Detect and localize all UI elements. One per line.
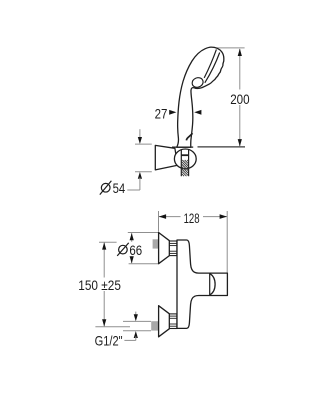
dimension 128 extension line right	[226, 211, 228, 273]
bracket ball circle	[174, 149, 196, 169]
top union nut	[169, 241, 177, 256]
dimension 200 arrow down	[238, 139, 242, 146]
dimension 200 extension line bottom	[198, 146, 246, 148]
dimension G12 extension line top	[123, 320, 151, 322]
label G12 leader	[124, 339, 135, 341]
dimension 150 arrow up	[102, 242, 106, 249]
bracket clip left line	[180, 150, 182, 177]
svg-text:27: 27	[155, 105, 168, 121]
svg-text:54: 54	[113, 180, 126, 196]
dimension D66 extension line top	[128, 232, 158, 234]
shower head rim line 1	[204, 49, 216, 78]
bracket shank hatching	[182, 160, 189, 176]
svg-text:200: 200	[230, 91, 250, 107]
dimension 150 extension line top	[99, 241, 117, 243]
dimension 128 arrow right	[220, 214, 227, 219]
svg-text:G1/2": G1/2"	[95, 333, 123, 349]
bottom wall plug G1/2	[151, 321, 158, 330]
handle arc	[210, 274, 215, 295]
shower head rim line 2	[205, 53, 220, 83]
dimension 200 extension line top	[215, 47, 244, 49]
svg-text:66: 66	[129, 242, 142, 258]
bottom escutcheon cone	[159, 306, 170, 337]
bracket clip crossbar	[181, 154, 188, 156]
top escutcheon cone	[159, 233, 170, 264]
label D66 diameter symbol	[119, 245, 128, 254]
bottom union nut	[169, 314, 177, 329]
dimension 128 extension line left	[158, 211, 160, 232]
dimension G12 arrow down	[135, 312, 137, 315]
dimension 27 arrow right	[169, 110, 176, 115]
dimension 200 line	[239, 49, 241, 146]
dimension D66 extension line bottom	[129, 263, 159, 265]
dimension D54 upper arrow line	[139, 129, 141, 138]
dimension 150 line	[103, 243, 105, 327]
hand shower silhouette (handle + head)	[177, 47, 224, 147]
top wall plug G1/2	[153, 239, 159, 248]
dimension 200 arrow up	[238, 49, 242, 56]
dimension 128 arrow left	[159, 214, 166, 219]
dimension D54 upper extension line	[135, 143, 152, 145]
dimension D66 arrow down	[130, 256, 134, 263]
dimension 150 arrow down	[102, 319, 106, 326]
dimension G12 arrow up	[134, 331, 138, 338]
bracket clip right line	[188, 150, 190, 177]
dimension D66 line	[131, 233, 133, 263]
dimension G12 extension line bottom	[123, 330, 151, 332]
label D54 diameter symbol	[101, 183, 110, 192]
handle divider line	[209, 273, 211, 295]
svg-text:150 ±25: 150 ±25	[78, 277, 121, 293]
svg-text:128: 128	[184, 210, 200, 226]
dimension D54 lower arrow line	[138, 172, 142, 179]
bracket holder rim	[172, 146, 193, 148]
dimension D54 lower extension line	[135, 171, 152, 173]
handle inner hook	[186, 133, 192, 140]
dimension 128 line	[159, 216, 228, 218]
shower head curl	[192, 78, 203, 88]
mixer body	[177, 240, 227, 328]
dimension D66 arrow up	[130, 233, 134, 240]
label D54 leader	[127, 189, 140, 191]
dimension 27 arrow left	[194, 110, 201, 115]
wall bracket cone	[155, 145, 177, 170]
dimension 150 extension line bottom	[95, 326, 130, 328]
